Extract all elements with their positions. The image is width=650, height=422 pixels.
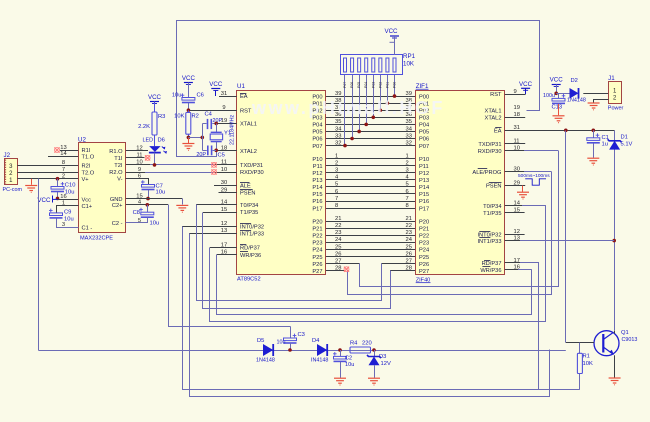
svg-text:WR/P36: WR/P36 — [480, 268, 501, 274]
wire J2 pin2 to U2 T2.O — [17, 172, 78, 174]
svg-text:P12: P12 — [419, 171, 429, 177]
wires RP1 to P0 rows — [344, 75, 346, 146]
wire ZIF TXD stub — [505, 143, 525, 145]
svg-text:12V: 12V — [381, 361, 391, 367]
node INT1-ZIF collector junction — [612, 239, 616, 243]
wire P26 row segments — [326, 263, 360, 265]
power VCC for R3 — [150, 101, 159, 103]
ground below Q1 — [609, 378, 621, 385]
svg-text:P10: P10 — [312, 157, 322, 163]
ground right of U2 — [176, 205, 188, 212]
svg-text:22: 22 — [335, 223, 341, 229]
svg-text:3: 3 — [335, 168, 338, 174]
wire ZIF INT1 line to Q1 collector — [505, 240, 520, 242]
wire U1 T0 stub — [196, 204, 237, 206]
svg-text:35: 35 — [335, 119, 341, 125]
svg-text:P13: P13 — [312, 178, 322, 184]
svg-text:EA: EA — [240, 94, 248, 100]
svg-text:5.1V: 5.1V — [621, 142, 633, 148]
svg-text:21: 21 — [406, 216, 412, 222]
power VCC main — [552, 84, 561, 86]
svg-text:22: 22 — [406, 223, 412, 229]
svg-text:P27: P27 — [312, 269, 322, 275]
wire U1 P26 to ZIF RXD — [360, 151, 559, 287]
svg-text:33: 33 — [335, 133, 341, 139]
svg-text:ALE: ALE — [240, 184, 251, 190]
svg-text:C2: C2 — [345, 356, 352, 362]
svg-text:P07: P07 — [343, 82, 347, 88]
svg-text:U1: U1 — [237, 83, 245, 90]
svg-text:P06: P06 — [350, 82, 354, 88]
svg-text:5: 5 — [406, 182, 409, 188]
svg-text:25: 25 — [406, 244, 412, 250]
svg-text:P06: P06 — [312, 137, 322, 143]
svg-text:7: 7 — [335, 196, 338, 202]
svg-text:P27: P27 — [419, 269, 429, 275]
svg-text:INT1/P33: INT1/P33 — [240, 232, 264, 238]
svg-text:U2: U2 — [78, 137, 86, 144]
svg-text:TXD/P31: TXD/P31 — [478, 142, 501, 148]
capacitor C13 100u — [558, 93, 560, 98]
wire U1 PSEN stub — [219, 192, 237, 194]
svg-text:24: 24 — [335, 237, 342, 243]
svg-text:32: 32 — [335, 140, 341, 146]
svg-text:C13: C13 — [552, 105, 563, 111]
svg-text:R1I: R1I — [82, 148, 91, 154]
op-amp ZIF1 ZIF40 body — [416, 91, 505, 275]
ground below D3 — [368, 378, 380, 385]
svg-text:39: 39 — [406, 91, 412, 97]
svg-text:P03: P03 — [371, 82, 375, 88]
svg-text:20P: 20P — [196, 152, 206, 158]
svg-text:P20: P20 — [312, 219, 322, 225]
svg-text:RST: RST — [490, 92, 502, 98]
svg-text:D6: D6 — [158, 138, 165, 144]
ground at J2 — [31, 179, 33, 185]
diode D3 12V zener — [374, 350, 376, 356]
svg-text:2: 2 — [406, 160, 409, 166]
wire Q1 collector — [614, 331, 616, 334]
diode D1 5.1V zener — [608, 139, 622, 142]
svg-text:P00: P00 — [392, 82, 396, 88]
node XTAL2 junction — [214, 149, 218, 153]
svg-text:WR/P36: WR/P36 — [240, 253, 261, 259]
svg-text:P25: P25 — [312, 255, 322, 261]
svg-text:P04: P04 — [312, 123, 322, 129]
svg-text:C9: C9 — [64, 210, 71, 216]
svg-text:22.1184MHz: 22.1184MHz — [230, 115, 236, 145]
wire ZIF INT0 stub — [505, 234, 525, 236]
svg-text:EA: EA — [494, 129, 502, 135]
wire U2 R1I stub — [60, 150, 78, 152]
wire ZIF ALE stub — [505, 171, 524, 173]
svg-text:PSEN: PSEN — [240, 191, 256, 197]
svg-text:P23: P23 — [419, 241, 429, 247]
ground below C2 — [334, 378, 346, 385]
capacitor C9 10u — [57, 206, 79, 213]
wire U1 XTAL1 stub — [216, 123, 237, 125]
svg-text:1u: 1u — [602, 142, 608, 148]
svg-text:33: 33 — [406, 133, 412, 139]
svg-text:V+: V+ — [82, 177, 90, 183]
wire Q1 emitter to ground — [614, 355, 616, 377]
svg-text:8: 8 — [406, 203, 409, 209]
svg-text:10u: 10u — [65, 190, 75, 196]
svg-text:VCC: VCC — [209, 81, 223, 88]
svg-text:P20: P20 — [419, 219, 429, 225]
svg-text:VCC: VCC — [519, 81, 533, 88]
svg-text:C5: C5 — [218, 153, 225, 159]
svg-text:P11: P11 — [313, 164, 323, 170]
svg-text:P07: P07 — [419, 144, 429, 150]
wire U2 T1I stub — [126, 157, 144, 159]
svg-text:27: 27 — [335, 258, 341, 264]
capacitor C6 10u — [182, 98, 195, 101]
svg-text:2.2K: 2.2K — [138, 124, 150, 130]
power VCC for RP1 — [390, 35, 399, 37]
wire ZIF WR stub — [505, 269, 518, 271]
ground below C1 — [587, 158, 599, 165]
svg-text:T2.O: T2.O — [82, 170, 95, 176]
svg-text:P22: P22 — [419, 234, 429, 240]
wire Q1 base — [566, 342, 594, 344]
svg-text:5: 5 — [335, 182, 338, 188]
svg-text:XTAL1: XTAL1 — [240, 122, 257, 128]
svg-text:28: 28 — [406, 265, 412, 271]
svg-text:D2: D2 — [571, 78, 578, 84]
wire ZIF T0 stub — [505, 205, 522, 207]
wire U1 RD stub — [210, 247, 237, 249]
no-connect X T1I — [145, 155, 150, 160]
wire ZIF PSEN stub — [505, 185, 525, 187]
svg-text:Q1: Q1 — [621, 330, 629, 336]
svg-text:31: 31 — [221, 91, 227, 97]
capacitor C7 10u — [126, 179, 149, 185]
wire U2 GND pin to ground — [126, 198, 182, 200]
wire U1 INT1 stub — [189, 233, 237, 235]
svg-text:P22: P22 — [312, 234, 322, 240]
svg-text:10u: 10u — [172, 92, 182, 98]
svg-text:P16: P16 — [419, 199, 429, 205]
capacitor C5 20P — [202, 150, 207, 152]
ground at J1 — [588, 103, 600, 110]
svg-text:100u: 100u — [543, 93, 555, 99]
wire R2 gnd to C4/C5 common — [188, 137, 202, 139]
wire U1 ALE stub — [214, 185, 237, 187]
svg-text:T1I: T1I — [114, 156, 123, 162]
wire VCC to U2 pin16 — [58, 199, 79, 201]
capacitor C1 1u — [592, 129, 596, 133]
svg-text:MAX232CPE: MAX232CPE — [80, 236, 113, 242]
svg-text:C8: C8 — [133, 210, 140, 216]
svg-text:T1/P35: T1/P35 — [240, 210, 258, 216]
svg-text:1: 1 — [406, 153, 409, 159]
wire ZIF RD stub — [505, 262, 520, 264]
svg-text:P07: P07 — [312, 144, 322, 150]
svg-text:C7: C7 — [156, 183, 163, 189]
wire RXD line U2.R2O to U1 — [126, 172, 145, 174]
svg-text:10: 10 — [136, 160, 142, 166]
svg-text:26: 26 — [335, 251, 341, 257]
svg-text:C1 -: C1 - — [82, 226, 93, 232]
svg-text:10K: 10K — [583, 361, 593, 367]
wire U2 R1.O stub — [126, 150, 148, 152]
resistor R3 2.2K — [154, 102, 156, 113]
svg-text:R3: R3 — [158, 114, 165, 120]
wire U1 T1 stub — [203, 212, 237, 214]
svg-text:AT89C52: AT89C52 — [237, 277, 261, 283]
svg-text:23: 23 — [335, 230, 341, 236]
wire ZIF T1 stub — [505, 212, 525, 214]
svg-text:Vcc: Vcc — [82, 198, 92, 204]
svg-text:INT1/P33: INT1/P33 — [477, 239, 501, 245]
svg-text:P25: P25 — [419, 255, 429, 261]
svg-text:XTAL1: XTAL1 — [485, 108, 502, 114]
node D4-C2 junction — [338, 348, 342, 352]
wire U1 RST line from C6 node — [188, 110, 236, 112]
wire U2 T1.O stub — [48, 156, 78, 158]
wire J2 pin3 to U2 R2I — [17, 165, 78, 167]
resistor R1 10K — [579, 343, 581, 354]
svg-text:D3: D3 — [379, 354, 386, 360]
svg-text:GND: GND — [110, 197, 123, 203]
wire P0 port rows U1-ZIF — [326, 96, 416, 98]
svg-text:26: 26 — [406, 251, 412, 257]
resistor R2 10K — [188, 110, 190, 112]
wire TXD line U2.T2I to U1 — [126, 164, 150, 166]
svg-text:IN4148: IN4148 — [311, 358, 328, 364]
svg-text:VCC: VCC — [182, 75, 196, 82]
svg-text:10u: 10u — [277, 340, 286, 346]
svg-text:10u: 10u — [156, 190, 166, 196]
svg-text:P04: P04 — [364, 82, 368, 88]
node XTAL1 junction — [214, 122, 218, 126]
wire EA right corner down to collector — [614, 131, 616, 331]
capacitor C2 10u — [340, 350, 342, 356]
svg-text:P06: P06 — [419, 137, 429, 143]
wire V+ down-left long — [38, 179, 40, 351]
op-amp U2 MAX232CPE body — [79, 143, 126, 233]
svg-text:C2 -: C2 - — [112, 221, 123, 227]
connector J2 body — [5, 159, 18, 185]
svg-text:P23: P23 — [312, 241, 322, 247]
svg-text:R2: R2 — [192, 114, 199, 120]
wire ZIF RXD stub — [505, 150, 524, 152]
svg-text:J2: J2 — [4, 152, 11, 159]
no-connect X R1I — [54, 147, 59, 152]
svg-text:10K: 10K — [403, 61, 415, 68]
svg-text:D5: D5 — [257, 338, 264, 344]
svg-text:RD/P37: RD/P37 — [240, 246, 260, 252]
svg-text:9: 9 — [514, 89, 517, 95]
ground below C13 — [553, 116, 565, 123]
wire ZIF RST stub + VCC — [505, 94, 526, 96]
transistor Q1 C9013 — [594, 331, 619, 356]
capacitor C10 10u — [56, 177, 60, 181]
svg-text:P26: P26 — [419, 262, 429, 268]
node C3 junction — [288, 348, 292, 352]
svg-text:21: 21 — [335, 216, 341, 222]
svg-text:XTAL2: XTAL2 — [240, 149, 257, 155]
wire U1 INT0 stub — [182, 226, 237, 228]
node RST junction — [187, 108, 191, 112]
op-amp U1 AT89C52 body — [237, 91, 326, 275]
svg-text:1: 1 — [335, 153, 338, 159]
svg-text:10u: 10u — [150, 221, 160, 227]
svg-text:27: 27 — [406, 258, 412, 264]
svg-text:RST: RST — [240, 108, 252, 114]
wire J1 pin2 to ground — [594, 100, 609, 103]
svg-text:www.pHtmall.HGF: www.pHtmall.HGF — [251, 98, 445, 118]
svg-text:19: 19 — [514, 105, 520, 111]
svg-text:8: 8 — [335, 203, 338, 209]
wire diode line — [39, 350, 566, 352]
svg-text:T2I: T2I — [114, 163, 123, 169]
wire C2+ route down to C3 — [169, 205, 291, 327]
node LED-TXD junction — [153, 163, 157, 167]
svg-text:RP1: RP1 — [403, 53, 416, 60]
svg-text:C9013: C9013 — [622, 337, 638, 343]
svg-text:P15: P15 — [419, 192, 429, 198]
svg-text:T1.O: T1.O — [82, 155, 95, 161]
crystal Y1 22.1184MHz — [216, 123, 218, 132]
svg-text:P15: P15 — [312, 192, 322, 198]
ground below R2 — [188, 137, 190, 143]
svg-text:XTAL2: XTAL2 — [485, 116, 502, 122]
node EA-Q1base branch — [564, 129, 568, 133]
svg-text:RXD/P30: RXD/P30 — [240, 170, 264, 176]
capacitor C3 10u — [290, 327, 292, 338]
svg-text:C10: C10 — [65, 183, 76, 189]
svg-text:R2.O: R2.O — [109, 170, 123, 176]
no-connect X RXD — [211, 169, 216, 174]
svg-text:500ms~100ms: 500ms~100ms — [518, 173, 550, 179]
node R4-D3 junction — [372, 348, 376, 352]
svg-text:P14: P14 — [419, 185, 429, 191]
svg-text:P14: P14 — [312, 185, 322, 191]
diode D2 1N4148 — [556, 93, 569, 95]
svg-text:LED: LED — [143, 138, 154, 144]
svg-text:J1: J1 — [608, 75, 615, 82]
svg-text:P01: P01 — [385, 82, 389, 88]
wire EA branch down to Q1 base — [565, 131, 567, 343]
svg-text:ALE/PROG: ALE/PROG — [472, 170, 501, 176]
svg-text:34: 34 — [335, 126, 342, 132]
svg-text:P11: P11 — [419, 164, 429, 170]
wire fan WR-U1 to ZIF WR — [217, 255, 532, 315]
svg-text:15: 15 — [221, 207, 227, 213]
svg-text:D1: D1 — [621, 135, 628, 141]
svg-text:P21: P21 — [312, 226, 322, 232]
capacitor C8 10u — [126, 204, 168, 206]
node VCC-D2 junction — [554, 92, 558, 96]
wire ZIF EA line — [505, 130, 615, 132]
svg-text:1N4148: 1N4148 — [567, 98, 586, 104]
svg-text:10u: 10u — [64, 217, 74, 223]
svg-text:VCC: VCC — [37, 197, 51, 204]
svg-text:R4: R4 — [350, 341, 358, 347]
svg-text:1N4148: 1N4148 — [256, 358, 275, 364]
capacitor C4 20P — [202, 123, 206, 125]
power VCC for C6 — [184, 82, 193, 84]
svg-text:34: 34 — [406, 126, 413, 132]
svg-text:13: 13 — [60, 145, 66, 151]
svg-text:T0/P34: T0/P34 — [483, 204, 501, 210]
svg-text:Power: Power — [608, 106, 624, 112]
svg-text:VCC: VCC — [384, 28, 398, 35]
wire J2 pin1 / V+ line — [17, 178, 78, 180]
wire U1 WR stub — [217, 254, 237, 256]
wire fan RD-U1 to ZIF T0 — [210, 206, 546, 322]
svg-text:23: 23 — [406, 230, 412, 236]
svg-text:INT0/P32: INT0/P32 — [240, 224, 264, 230]
svg-text:P05: P05 — [357, 82, 361, 88]
wire fan T1-U1 to ZIF P27 — [203, 213, 391, 309]
wire P27 row segments — [326, 270, 344, 272]
svg-text:28: 28 — [335, 265, 341, 271]
diode D4 1N4148 — [317, 344, 327, 356]
svg-text:R1.O: R1.O — [109, 149, 123, 155]
svg-text:V-: V- — [117, 177, 122, 183]
wire D2 to J1 — [583, 93, 608, 95]
svg-text:C6: C6 — [197, 93, 204, 99]
no-connect X TXD — [211, 162, 216, 167]
svg-text:3: 3 — [406, 168, 409, 174]
svg-text:C3: C3 — [298, 332, 305, 338]
svg-text:P02: P02 — [378, 82, 382, 88]
svg-text:P04: P04 — [419, 123, 429, 129]
connector J1 body — [609, 82, 622, 104]
wire U1 XTAL2 stub — [216, 150, 237, 152]
svg-text:24: 24 — [406, 237, 413, 243]
svg-text:P13: P13 — [419, 178, 429, 184]
wire top loop XTAL — [177, 21, 540, 157]
wire INT0-U1 bottom route to ZIF RD — [183, 227, 580, 390]
no-connect X P27 — [344, 267, 349, 272]
svg-text:9: 9 — [138, 167, 141, 173]
svg-text:35: 35 — [406, 119, 412, 125]
svg-text:P05: P05 — [312, 130, 322, 136]
svg-text:RXD/P30: RXD/P30 — [478, 149, 502, 155]
wire U1 EA stub + VCC — [219, 96, 237, 98]
svg-text:VCC: VCC — [550, 77, 564, 84]
svg-text:P16: P16 — [312, 199, 322, 205]
svg-text:P21: P21 — [419, 226, 429, 232]
svg-text:PSEN: PSEN — [486, 184, 502, 190]
svg-text:P05: P05 — [419, 130, 429, 136]
diode D5 1N4148 — [263, 344, 273, 356]
svg-text:2: 2 — [335, 160, 338, 166]
svg-text:T1/P35: T1/P35 — [483, 211, 501, 217]
svg-text:6: 6 — [335, 189, 338, 195]
svg-text:P24: P24 — [312, 248, 322, 254]
ground below PSEN — [522, 186, 524, 192]
wire fan P27X to ZIF ALE — [348, 172, 552, 295]
svg-text:P10: P10 — [419, 157, 429, 163]
resistor R4 220 — [350, 347, 371, 353]
svg-text:10K: 10K — [174, 114, 184, 120]
svg-text:P17: P17 — [312, 206, 322, 212]
svg-text:R2I: R2I — [82, 164, 91, 170]
wire INT1-U1 bottom route — [190, 234, 550, 397]
svg-text:6: 6 — [406, 189, 409, 195]
svg-text:220: 220 — [362, 341, 372, 347]
resistor network RP1 10K — [341, 55, 403, 75]
svg-text:7: 7 — [406, 196, 409, 202]
svg-text:P12: P12 — [312, 171, 322, 177]
svg-text:P26: P26 — [312, 262, 322, 268]
svg-text:P17: P17 — [419, 206, 429, 212]
